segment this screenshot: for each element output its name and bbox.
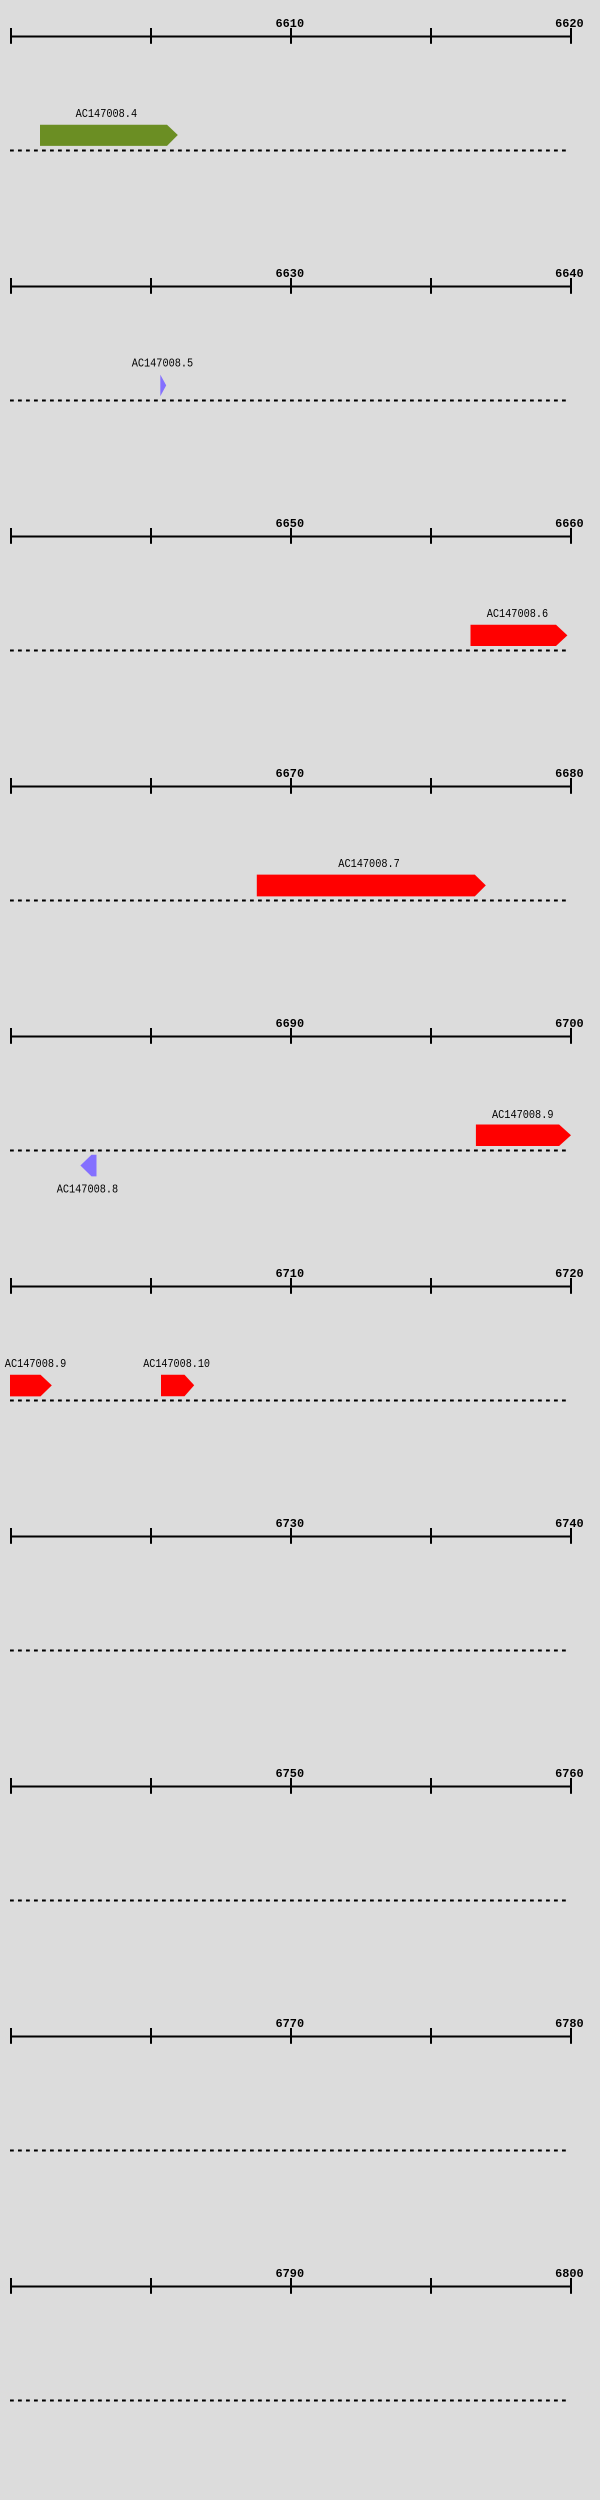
panel 10 ruler tick 6800	[570, 2278, 572, 2294]
svg-text:6710: 6710	[276, 1267, 305, 1281]
svg-text:6660: 6660	[555, 517, 584, 531]
panel 6 dashed strand baseline	[10, 1399, 570, 1401]
panel 6 ruler tick 6705	[150, 1278, 152, 1294]
svg-text:6760: 6760	[555, 1767, 584, 1781]
panel 3 ruler tick 6660	[570, 528, 572, 544]
panel 6 ruler line (6700-6720)	[10, 1286, 572, 1288]
svg-text:6730: 6730	[276, 1517, 305, 1531]
panel 10 dashed strand baseline	[10, 2399, 570, 2401]
svg-text:6690: 6690	[276, 1017, 305, 1031]
panel 5 dashed strand baseline	[10, 1149, 570, 1151]
feature arrow AC147008.5 (forward strand, short feature, panel 2)	[160, 375, 166, 397]
svg-text:6700: 6700	[555, 1017, 584, 1031]
panel 9 ruler tick 6770	[290, 2028, 292, 2044]
panel 1 ruler line (6600-6620)	[10, 36, 572, 38]
panel 8 ruler tick 6755	[430, 1778, 432, 1794]
panel 3 ruler tick 6640	[10, 528, 12, 544]
panel 5 ruler tick 6695	[430, 1028, 432, 1044]
panel 2 ruler line (6620-6640)	[10, 286, 572, 288]
feature arrow AC147008.7 (forward strand, panel 4)	[257, 875, 486, 897]
panel 7 ruler line (6720-6740)	[10, 1536, 572, 1538]
panel 8 ruler tick 6745	[150, 1778, 152, 1794]
panel 9 ruler tick 6760	[10, 2028, 12, 2044]
panel 4 ruler line (6660-6680)	[10, 786, 572, 788]
panel 7 ruler tick 6740	[570, 1528, 572, 1544]
panel 2 ruler tick 6625	[150, 278, 152, 294]
panel 10 ruler tick 6780	[10, 2278, 12, 2294]
svg-text:AC147008.8: AC147008.8	[57, 1183, 118, 1197]
panel 10 ruler line (6780-6800)	[10, 2286, 572, 2288]
svg-text:6680: 6680	[555, 767, 584, 781]
panel 8 ruler tick 6760	[570, 1778, 572, 1794]
panel 3 ruler tick 6655	[430, 528, 432, 544]
panel 5 ruler tick 6700	[570, 1028, 572, 1044]
panel 5 ruler tick 6680	[10, 1028, 12, 1044]
feature arrow AC147008.10 (forward strand, panel 6)	[161, 1375, 194, 1397]
panel 6 ruler tick 6720	[570, 1278, 572, 1294]
panel 10 ruler tick 6795	[430, 2278, 432, 2294]
panel 4 ruler tick 6675	[430, 778, 432, 794]
svg-text:6670: 6670	[276, 767, 305, 781]
svg-text:AC147008.5: AC147008.5	[132, 357, 194, 371]
svg-text:6720: 6720	[555, 1267, 584, 1281]
panel 7 ruler tick 6720	[10, 1528, 12, 1544]
panel 7 ruler tick 6725	[150, 1528, 152, 1544]
svg-text:AC147008.9: AC147008.9	[5, 1357, 67, 1371]
panel 9 ruler tick 6780	[570, 2028, 572, 2044]
panel 2 ruler tick 6635	[430, 278, 432, 294]
panel 1 dashed strand baseline	[10, 149, 570, 151]
panel 9 ruler tick 6775	[430, 2028, 432, 2044]
svg-text:6780: 6780	[555, 2017, 584, 2031]
feature arrow AC147008.9 continued (forward strand, panel 6)	[10, 1375, 52, 1397]
panel 7 ruler tick 6730	[290, 1528, 292, 1544]
svg-text:6630: 6630	[276, 267, 305, 281]
feature arrow AC147008.9 (forward strand, panel 5)	[476, 1125, 571, 1147]
panel 3 dashed strand baseline	[10, 649, 570, 651]
panel 7 dashed strand baseline	[10, 1649, 570, 1651]
panel 3 ruler line (6640-6660)	[10, 536, 572, 538]
panel 1 ruler tick 6620	[570, 28, 572, 44]
feature arrow AC147008.8 (reverse strand, panel 5)	[80, 1155, 96, 1177]
panel 8 dashed strand baseline	[10, 1899, 570, 1901]
panel 1 ruler tick 6600	[10, 28, 12, 44]
svg-text:6770: 6770	[276, 2017, 305, 2031]
panel 4 dashed strand baseline	[10, 899, 570, 901]
panel 5 ruler tick 6690	[290, 1028, 292, 1044]
panel 5 ruler line (6680-6700)	[10, 1036, 572, 1038]
panel 8 ruler tick 6740	[10, 1778, 12, 1794]
svg-text:6790: 6790	[276, 2267, 305, 2281]
panel 1 ruler tick 6610	[290, 28, 292, 44]
svg-text:AC147008.9: AC147008.9	[492, 1108, 554, 1122]
panel 4 ruler tick 6680	[570, 778, 572, 794]
panel 8 ruler line (6740-6760)	[10, 1786, 572, 1788]
svg-text:AC147008.7: AC147008.7	[338, 857, 400, 871]
panel 2 dashed strand baseline	[10, 399, 570, 401]
panel 9 ruler tick 6765	[150, 2028, 152, 2044]
svg-text:6650: 6650	[276, 517, 305, 531]
svg-text:6610: 6610	[276, 17, 305, 31]
panel 5 ruler tick 6685	[150, 1028, 152, 1044]
svg-text:6620: 6620	[555, 17, 584, 31]
panel 9 ruler line (6760-6780)	[10, 2036, 572, 2038]
panel 4 ruler tick 6665	[150, 778, 152, 794]
panel 3 ruler tick 6650	[290, 528, 292, 544]
svg-text:6740: 6740	[555, 1517, 584, 1531]
panel 4 ruler tick 6660	[10, 778, 12, 794]
svg-text:6750: 6750	[276, 1767, 305, 1781]
panel 7 ruler tick 6735	[430, 1528, 432, 1544]
panel 6 ruler tick 6700	[10, 1278, 12, 1294]
panel 1 ruler tick 6605	[150, 28, 152, 44]
panel 1 ruler tick 6615	[430, 28, 432, 44]
panel 6 ruler tick 6710	[290, 1278, 292, 1294]
svg-text:AC147008.4: AC147008.4	[76, 107, 138, 121]
panel 10 ruler tick 6790	[290, 2278, 292, 2294]
feature arrow AC147008.6 (forward strand, panel 3)	[471, 625, 568, 646]
panel 2 ruler tick 6620	[10, 278, 12, 294]
panel 6 ruler tick 6715	[430, 1278, 432, 1294]
svg-text:AC147008.6: AC147008.6	[487, 607, 549, 621]
svg-text:6640: 6640	[555, 267, 584, 281]
feature arrow AC147008.4 (forward strand gene, panel 1)	[40, 125, 178, 146]
panel 8 ruler tick 6750	[290, 1778, 292, 1794]
panel 2 ruler tick 6640	[570, 278, 572, 294]
svg-text:6800: 6800	[555, 2267, 584, 2281]
panel 10 ruler tick 6785	[150, 2278, 152, 2294]
panel 4 ruler tick 6670	[290, 778, 292, 794]
panel 3 ruler tick 6645	[150, 528, 152, 544]
svg-text:AC147008.10: AC147008.10	[143, 1357, 210, 1371]
panel 2 ruler tick 6630	[290, 278, 292, 294]
panel 9 dashed strand baseline	[10, 2149, 570, 2151]
